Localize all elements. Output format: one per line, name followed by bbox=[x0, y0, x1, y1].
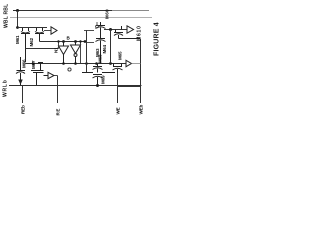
svg-text:M64: M64 bbox=[102, 45, 107, 54]
svg-text:FIGURE 4: FIGURE 4 bbox=[154, 22, 161, 56]
svg-text:WBL RBL: WBL RBL bbox=[4, 4, 10, 28]
svg-text:M61: M61 bbox=[15, 35, 20, 44]
svg-text:M610: M610 bbox=[137, 25, 143, 41]
svg-text:M60: M60 bbox=[105, 9, 110, 19]
svg-text:M66: M66 bbox=[22, 59, 27, 68]
svg-text:M65: M65 bbox=[118, 51, 123, 60]
svg-text:N1: N1 bbox=[54, 47, 59, 53]
svg-text:WEb: WEb bbox=[139, 105, 144, 115]
svg-text:RE: RE bbox=[56, 108, 61, 116]
svg-text:WE: WE bbox=[116, 107, 121, 114]
svg-text:M68: M68 bbox=[98, 54, 103, 63]
svg-text:M69: M69 bbox=[101, 75, 106, 84]
svg-text:WRLb: WRLb bbox=[3, 79, 9, 97]
svg-text:M62: M62 bbox=[29, 38, 34, 47]
svg-text:REb: REb bbox=[21, 105, 26, 114]
svg-text:M67: M67 bbox=[31, 60, 36, 69]
